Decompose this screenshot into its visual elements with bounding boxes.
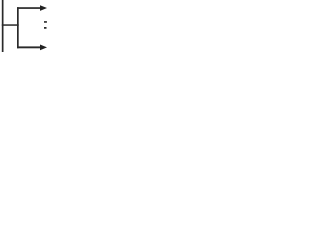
arrowhead: bottom arrow pointing right (40, 45, 47, 51)
wire: horizontal connector from trunk to branch point (2, 24, 19, 26)
wire: branch vertical joining the two arrow branches (17, 7, 19, 48)
wire: top branch horizontal shaft (17, 7, 41, 9)
arrowhead: top arrow pointing right (40, 5, 47, 11)
wire: bottom branch horizontal shaft (17, 46, 41, 48)
text fragment: clipped label line 1 at right edge (44, 21, 47, 23)
wire: left vertical trunk (clipped node edge) (2, 0, 4, 52)
text fragment: clipped label line 2 at right edge (44, 27, 47, 29)
